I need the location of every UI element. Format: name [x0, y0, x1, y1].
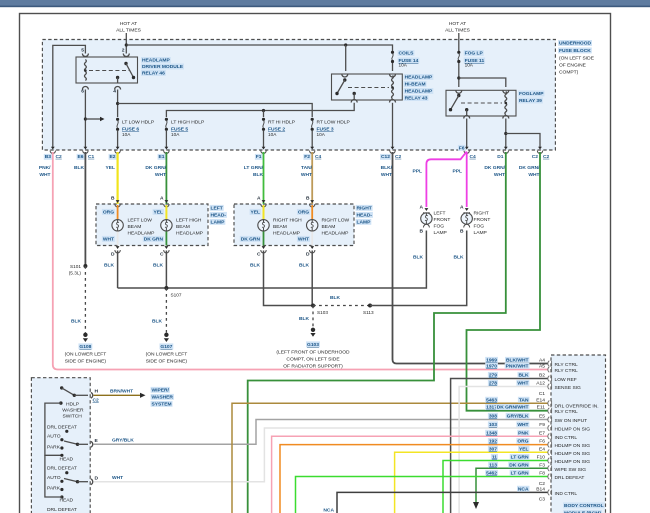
ground G107: [146, 333, 188, 365]
svg-text:DK GRN: DK GRN: [144, 237, 164, 243]
svg-text:279: 279: [489, 373, 497, 379]
svg-text:E14: E14: [536, 397, 545, 403]
wire DK GRN segment below left high bulb: [165, 232, 167, 246]
svg-text:HEADLAMP: HEADLAMP: [273, 231, 300, 237]
svg-text:YEL: YEL: [153, 210, 163, 216]
connector D1: [503, 147, 508, 154]
svg-text:DRL DEFEAT: DRL DEFEAT: [47, 466, 77, 472]
svg-text:AUTO: AUTO: [47, 434, 61, 440]
svg-text:G108: G108: [79, 344, 91, 350]
connector row labels: [44, 145, 550, 160]
pin D right low: [306, 246, 315, 257]
fuse LT HIGH HDLP FUSE 5: [165, 118, 168, 131]
svg-text:HDLMP ON SIG: HDLMP ON SIG: [555, 459, 591, 465]
svg-text:6: 6: [81, 89, 84, 95]
svg-text:BLK: BLK: [299, 263, 310, 269]
connector B3/C2: [50, 147, 55, 154]
svg-text:PNK: PNK: [518, 430, 529, 436]
svg-text:BLK: BLK: [299, 316, 310, 322]
switch common feed line 2: [45, 455, 62, 497]
ground G108: [65, 333, 107, 365]
svg-text:SIDE OF ENGINE): SIDE OF ENGINE): [146, 359, 188, 365]
svg-text:LT GRN: LT GRN: [511, 471, 529, 477]
svg-text:LT GRN: LT GRN: [511, 455, 529, 461]
svg-text:F6: F6: [459, 146, 465, 152]
wire TAN circuit 5463 to BCM E14: [232, 403, 548, 513]
connector F6/C4: [464, 147, 469, 154]
svg-text:B3: B3: [45, 154, 52, 160]
svg-text:F2: F2: [304, 154, 310, 160]
svg-text:WHT: WHT: [301, 172, 312, 178]
pin C left high: [160, 246, 169, 257]
BCM pin B14 row: [517, 486, 577, 497]
node HOT AT ALL TIMES (fog feed): [445, 21, 470, 34]
svg-text:RELAY 39: RELAY 39: [519, 98, 542, 104]
label fuse 3: [317, 120, 350, 138]
svg-text:LT HIGH HDLP: LT HIGH HDLP: [171, 120, 204, 126]
svg-text:YEL: YEL: [105, 165, 115, 171]
svg-text:5462: 5462: [486, 471, 497, 477]
relay 46 headlamp driver module: [76, 57, 138, 83]
wire DK GRN/WHT circuit 1317: C2 to BCM E11: [467, 152, 549, 411]
BCM pin A12 row: [488, 380, 581, 391]
svg-text:10A: 10A: [268, 132, 277, 137]
relay 43 pin arcs: [342, 74, 396, 103]
connector F1: [261, 147, 266, 154]
svg-text:S103: S103: [317, 310, 328, 315]
svg-text:HEADLAMP: HEADLAMP: [405, 75, 433, 81]
svg-text:C3: C3: [539, 497, 546, 503]
svg-text:BLK: BLK: [453, 255, 464, 261]
svg-text:SWITCH: SWITCH: [63, 414, 83, 420]
svg-text:BLK: BLK: [330, 295, 341, 301]
svg-text:A: A: [160, 196, 164, 202]
wire BLK dashed S103 to G103: [312, 306, 314, 328]
relay 46 pin connector arcs: [82, 54, 129, 90]
svg-text:YEL: YEL: [519, 446, 529, 452]
svg-text:E5: E5: [539, 414, 545, 420]
svg-text:F3: F3: [539, 462, 545, 468]
svg-text:BRN/WHT: BRN/WHT: [110, 389, 133, 395]
svg-text:HEAD-: HEAD-: [211, 213, 227, 219]
svg-text:OF RADIATOR SUPPORT): OF RADIATOR SUPPORT): [283, 364, 343, 370]
svg-text:RIGHT HIGH: RIGHT HIGH: [273, 218, 302, 224]
wire DK GRN/WHT: E1 to left high beam headlamp: [165, 152, 167, 204]
svg-text:ALL TIMES: ALL TIMES: [116, 28, 141, 34]
wire BLK right high C to ground bus2: [264, 251, 314, 306]
svg-text:WHT: WHT: [155, 172, 166, 178]
svg-text:DRIVER MODULE: DRIVER MODULE: [142, 64, 184, 70]
svg-text:C2: C2: [56, 154, 63, 160]
svg-text:(LEFT FRONT OF UNDERHOOD: (LEFT FRONT OF UNDERHOOD: [276, 350, 350, 356]
svg-text:B2: B2: [539, 373, 545, 379]
wire WHT circuit 278 to BCM A12: [459, 387, 548, 513]
bulb left low beam headlamp: [112, 220, 123, 231]
svg-text:BODY CONTROL: BODY CONTROL: [564, 503, 604, 509]
svg-text:FOG: FOG: [434, 224, 445, 230]
svg-text:WHT: WHT: [112, 475, 123, 481]
svg-text:TAN: TAN: [519, 397, 529, 403]
wire hot bus drop to relay 43 switch: [345, 45, 347, 71]
svg-text:(ON LEFT SIDE: (ON LEFT SIDE: [559, 56, 595, 62]
svg-text:NCA: NCA: [518, 486, 529, 492]
BCM pin E5 row: [488, 413, 587, 424]
wire relay46 pin 4 low-beam bus: [116, 90, 312, 118]
svg-text:ORG: ORG: [517, 439, 528, 445]
switch common feed line: [45, 403, 62, 455]
node HOT AT ALL TIMES (left feed): [116, 21, 141, 34]
wire PNK/WHT circuit 1970: B3 to BCM A5: [53, 152, 548, 370]
svg-text:LT LOW HDLP: LT LOW HDLP: [122, 120, 154, 126]
svg-text:BLK: BLK: [253, 172, 264, 178]
svg-text:C12: C12: [381, 154, 390, 160]
svg-text:5463: 5463: [486, 397, 497, 403]
wire fuse11 to relay39: [457, 63, 506, 87]
svg-text:10A: 10A: [465, 63, 474, 68]
svg-text:GRY/BLK: GRY/BLK: [112, 438, 134, 444]
label coils fuse 14: [398, 50, 420, 68]
svg-text:TAN/: TAN/: [301, 165, 313, 171]
fuse LT LOW HDLP FUSE 6: [116, 118, 119, 131]
BCM pin E7 row: [485, 430, 577, 441]
pin A right fog: [460, 205, 469, 216]
svg-text:AUTO: AUTO: [47, 475, 61, 481]
wire relay46 pin 6 to E6: [84, 90, 87, 149]
connector E6/C1: [83, 147, 88, 154]
svg-text:FUSE BLOCK: FUSE BLOCK: [559, 48, 591, 54]
svg-text:10A: 10A: [122, 132, 131, 137]
wire DK GRN/WHT circuit: D1 down-left and off page bottom: [248, 152, 506, 513]
connector E2: [115, 147, 120, 154]
fuse FOG LP FUSE 11: [457, 51, 460, 63]
wire LT GRN circuit 11 to BCM F10: [443, 461, 548, 513]
svg-text:FRONT: FRONT: [434, 217, 451, 223]
BCM pin F6 row: [488, 438, 590, 449]
svg-text:307: 307: [489, 446, 497, 452]
svg-text:YEL: YEL: [250, 210, 260, 216]
pin D left low: [111, 246, 120, 257]
svg-text:S113: S113: [363, 310, 374, 315]
svg-text:LAMP: LAMP: [434, 230, 447, 236]
svg-text:RLY CTRL: RLY CTRL: [555, 368, 578, 374]
wire ORG segment to left low bulb: [117, 205, 119, 219]
svg-text:RLY CTRL: RLY CTRL: [555, 409, 578, 415]
svg-text:COILS: COILS: [399, 51, 415, 57]
BCM pin A5 row: [485, 363, 578, 374]
label wiper/washer system: [151, 387, 174, 408]
label right headlamp: [356, 205, 373, 226]
svg-text:D1: D1: [497, 154, 504, 160]
wire LT GRN/BLK: F1 to right high beam headlamp: [263, 152, 265, 204]
svg-text:BLK: BLK: [152, 319, 163, 325]
svg-text:C2: C2: [532, 154, 539, 160]
wire BLK dashed S103 to S113: [313, 305, 370, 307]
svg-text:5: 5: [81, 48, 84, 54]
svg-text:ORG: ORG: [103, 210, 114, 216]
svg-text:F10: F10: [537, 455, 546, 461]
svg-text:(ON LOWER LEFT: (ON LOWER LEFT: [146, 352, 188, 358]
svg-text:PPL: PPL: [452, 169, 462, 175]
wire ORG segment to right low bulb: [311, 205, 313, 219]
svg-text:HEAD: HEAD: [60, 457, 74, 463]
wire BLK circuit 279 to BCM B2: [451, 379, 548, 513]
svg-text:DK GRN: DK GRN: [509, 462, 529, 468]
svg-text:C1: C1: [88, 154, 95, 160]
svg-text:A: A: [460, 205, 464, 211]
svg-text:DK GRN/: DK GRN/: [145, 165, 166, 171]
svg-text:DK GRN/: DK GRN/: [484, 165, 505, 171]
svg-text:SIDE OF ENGINE): SIDE OF ENGINE): [65, 359, 107, 365]
svg-text:HDLMP ON SIG: HDLMP ON SIG: [555, 427, 591, 433]
svg-text:C: C: [160, 252, 164, 258]
connector E1: [164, 147, 169, 154]
svg-text:RELAY 43: RELAY 43: [405, 96, 428, 102]
svg-text:BEAM: BEAM: [128, 224, 142, 230]
svg-text:SENSE SIG: SENSE SIG: [555, 385, 582, 391]
wire BLK dashed: S101 to G108: [84, 266, 86, 333]
wire PPL: F6/C4 to left front fog lamp: [426, 152, 466, 208]
splice S101: [69, 264, 88, 276]
label relay 46: [141, 57, 184, 77]
svg-text:WASHER: WASHER: [152, 395, 174, 401]
splice S113: [363, 304, 374, 316]
wire BLK S113 to right fog lamp: [370, 231, 467, 306]
svg-text:2: 2: [122, 48, 125, 54]
label HDLP WASHER SWITCH: [59, 401, 84, 419]
svg-text:BEAM: BEAM: [176, 224, 190, 230]
wire ORG circuit 192 to BCM F6: [280, 445, 548, 513]
svg-text:(ON LOWER LEFT: (ON LOWER LEFT: [65, 352, 107, 358]
svg-text:FOG LP: FOG LP: [465, 51, 484, 57]
svg-text:C4: C4: [315, 154, 322, 160]
svg-text:WHT: WHT: [528, 172, 539, 178]
svg-text:PNK/: PNK/: [39, 165, 51, 171]
svg-text:B: B: [111, 196, 115, 202]
svg-text:IND CTRL: IND CTRL: [555, 491, 578, 497]
BCM pin F10 row: [491, 454, 590, 465]
bulb right low beam headlamp: [307, 220, 318, 231]
svg-text:HDLMP ON SIG: HDLMP ON SIG: [555, 443, 591, 449]
svg-text:C4: C4: [470, 154, 477, 160]
svg-text:BEAM: BEAM: [273, 224, 287, 230]
svg-text:HOT AT: HOT AT: [120, 21, 137, 27]
switch section 1 contacts: [47, 425, 77, 463]
svg-text:HEADLAMP: HEADLAMP: [128, 231, 155, 237]
fuse COILS FUSE 14: [391, 51, 394, 63]
label fuse 2: [268, 120, 295, 138]
wire DK GRN segment below right high bulb: [263, 232, 265, 246]
svg-text:B: B: [460, 229, 464, 235]
switch arm 2 to pin D: [64, 479, 88, 484]
label fuse 6: [122, 120, 154, 138]
svg-text:UNDERHOOD: UNDERHOOD: [559, 41, 592, 47]
svg-text:SW ON INPUT: SW ON INPUT: [555, 418, 588, 424]
svg-text:DRL DEFEAT: DRL DEFEAT: [555, 475, 585, 481]
svg-text:DK GRN/WHT: DK GRN/WHT: [497, 405, 529, 411]
wire DK GRN circuit 113 from BCM F3 off page with arrow: [473, 468, 548, 509]
switch section 2 contacts: [47, 466, 77, 504]
wire BLK right low D to splice S103: [311, 251, 313, 306]
BCM pin F8 row: [485, 470, 584, 481]
wire GRY/BLK circuit 308: pin E to BCM E5: [94, 420, 549, 445]
connector F2/C4: [310, 147, 315, 154]
svg-text:BLK: BLK: [250, 263, 261, 269]
svg-text:10A: 10A: [317, 132, 326, 137]
underhood fuse block box: [42, 40, 555, 151]
wire YEL segment to left high bulb: [165, 205, 167, 219]
svg-text:BLK: BLK: [518, 373, 529, 379]
pin B right low: [306, 196, 315, 208]
svg-text:C1: C1: [539, 391, 546, 397]
pin B left low: [111, 196, 120, 208]
headlamp washer switch box: [31, 378, 90, 513]
svg-text:DRL OVERRIDE IN.: DRL OVERRIDE IN.: [555, 404, 599, 410]
svg-text:WASHER: WASHER: [62, 408, 84, 414]
svg-text:COMPT, ON LEFT SIDE: COMPT, ON LEFT SIDE: [286, 357, 340, 363]
label left headlamp: [210, 205, 227, 226]
svg-text:E1: E1: [159, 154, 165, 160]
label body control module: [563, 502, 605, 513]
svg-text:HOT AT: HOT AT: [449, 21, 466, 27]
svg-text:C2: C2: [93, 398, 100, 404]
svg-text:WHT: WHT: [103, 237, 114, 243]
relay 39 foglamp relay: [446, 90, 516, 116]
svg-text:H: H: [95, 389, 99, 395]
svg-text:GRY/BLK: GRY/BLK: [507, 414, 529, 420]
left headlamp box: [96, 204, 208, 246]
svg-text:HEADLAMP: HEADLAMP: [405, 89, 433, 95]
svg-text:A12: A12: [536, 381, 545, 387]
fuse RT HI HDLP FUSE 2: [262, 118, 265, 131]
svg-text:HEADLAMP: HEADLAMP: [142, 58, 170, 64]
BCM pin B2 row: [488, 372, 577, 383]
svg-text:D: D: [95, 476, 99, 482]
svg-text:(5.3L): (5.3L): [69, 271, 82, 276]
svg-text:PPL: PPL: [412, 169, 422, 175]
svg-text:WHT: WHT: [517, 422, 528, 428]
svg-text:FOG: FOG: [474, 224, 485, 230]
wire PPL: F6/C4 to right front fog lamp: [466, 152, 468, 207]
svg-text:NCA: NCA: [323, 508, 334, 513]
svg-text:LEFT LOW: LEFT LOW: [128, 218, 153, 224]
svg-text:4: 4: [113, 89, 116, 95]
pin H arc: [91, 393, 93, 399]
wire TAN/WHT: F2 to right low beam headlamp: [311, 152, 313, 204]
svg-text:COMPT): COMPT): [559, 70, 579, 76]
svg-text:ALL TIMES: ALL TIMES: [445, 28, 470, 34]
svg-text:LAMP: LAMP: [357, 220, 372, 226]
svg-text:BLK/WHT: BLK/WHT: [506, 358, 529, 364]
pin numbers relay 46: [81, 48, 125, 95]
body control module box: [551, 355, 606, 513]
svg-text:SYSTEM: SYSTEM: [152, 402, 172, 408]
svg-text:E6: E6: [78, 154, 84, 160]
svg-text:G107: G107: [160, 344, 172, 350]
wire YEL circuit 307 to BCM E4: [395, 452, 548, 513]
svg-text:B: B: [419, 229, 423, 235]
svg-text:PARK: PARK: [47, 486, 61, 492]
svg-text:LAMP: LAMP: [474, 230, 487, 236]
svg-text:F6: F6: [539, 439, 545, 445]
svg-text:RELAY 46: RELAY 46: [142, 71, 165, 77]
wire WHT segment below right low bulb: [311, 232, 313, 246]
svg-text:RIGHT: RIGHT: [357, 206, 372, 212]
svg-text:PARK: PARK: [47, 445, 61, 451]
svg-text:113: 113: [489, 462, 497, 468]
wire hot bus to coils fuse 14: [126, 43, 392, 51]
bulb right high beam headlamp: [258, 220, 269, 231]
BCM pin F3 row: [488, 462, 586, 473]
svg-text:D: D: [306, 252, 310, 258]
wire YEL segment to right high bulb: [263, 205, 265, 219]
wires fuse outputs to connector row: [118, 131, 313, 148]
relay 39 pin arcs: [456, 90, 509, 118]
wire fuse14 to relay43 coil: [392, 63, 394, 71]
svg-text:A4: A4: [539, 358, 545, 364]
svg-text:LEFT: LEFT: [211, 206, 223, 212]
svg-text:1970: 1970: [486, 364, 497, 370]
svg-text:WHT: WHT: [517, 381, 528, 387]
svg-text:E11: E11: [537, 405, 546, 411]
relay 43 headlamp hi-beam relay: [332, 74, 403, 100]
svg-text:WHT: WHT: [298, 237, 309, 243]
svg-text:A: A: [419, 205, 423, 211]
wire hot feed to relay46 pin 2: [125, 33, 128, 54]
svg-text:DK GRN/: DK GRN/: [519, 165, 540, 171]
wire BLK ground bus1 to left fog lamp: [118, 231, 427, 289]
switch contact H (washer): [60, 386, 88, 397]
svg-text:B: B: [306, 196, 310, 202]
svg-text:WHT: WHT: [39, 172, 50, 178]
svg-text:HDLP: HDLP: [66, 402, 79, 408]
label relay 43: [404, 74, 434, 102]
svg-text:C2: C2: [395, 154, 402, 160]
svg-text:B14: B14: [536, 486, 545, 492]
svg-text:BLK: BLK: [104, 263, 115, 269]
label fuse 5: [171, 120, 204, 138]
svg-text:FRONT: FRONT: [474, 217, 491, 223]
bulb right front fog lamp: [461, 213, 472, 224]
arrow stub from pin6 wire: [85, 117, 104, 121]
svg-text:DRL DEFEAT: DRL DEFEAT: [47, 507, 77, 513]
svg-text:RIGHT: RIGHT: [474, 211, 489, 217]
pin A left high: [160, 196, 169, 208]
svg-text:BLK: BLK: [74, 165, 85, 171]
svg-text:RLY CTRL: RLY CTRL: [555, 362, 578, 368]
svg-text:1348: 1348: [486, 430, 497, 436]
svg-text:1969: 1969: [486, 358, 497, 364]
wire hi-beam bus from relay 43 output: [166, 103, 354, 117]
wire hot feed to fog lp fuse 11: [458, 33, 460, 51]
wire BLK dashed S107 to G107: [165, 288, 167, 333]
svg-text:C2: C2: [539, 481, 546, 487]
BCM pin E11 row: [485, 404, 578, 415]
wire BLK left low D to ground bus: [117, 251, 119, 289]
svg-text:BLK: BLK: [413, 255, 424, 261]
svg-text:F9: F9: [539, 422, 545, 428]
pin E arc: [91, 442, 93, 448]
svg-text:IND CTRL: IND CTRL: [555, 435, 578, 441]
BCM pin E14 row: [485, 397, 598, 410]
splice S103: [311, 304, 328, 316]
pin B left fog: [419, 224, 429, 234]
wire relay46 pin 5 feed from B3: [53, 45, 86, 148]
svg-text:LEFT: LEFT: [434, 211, 446, 217]
svg-text:HEADLAMP: HEADLAMP: [322, 231, 349, 237]
svg-text:RT LOW HDLP: RT LOW HDLP: [317, 120, 350, 126]
wire relay39 coil bottom to D1 and C2: [504, 119, 540, 149]
wire BLK: E6 to S101: [84, 152, 86, 266]
